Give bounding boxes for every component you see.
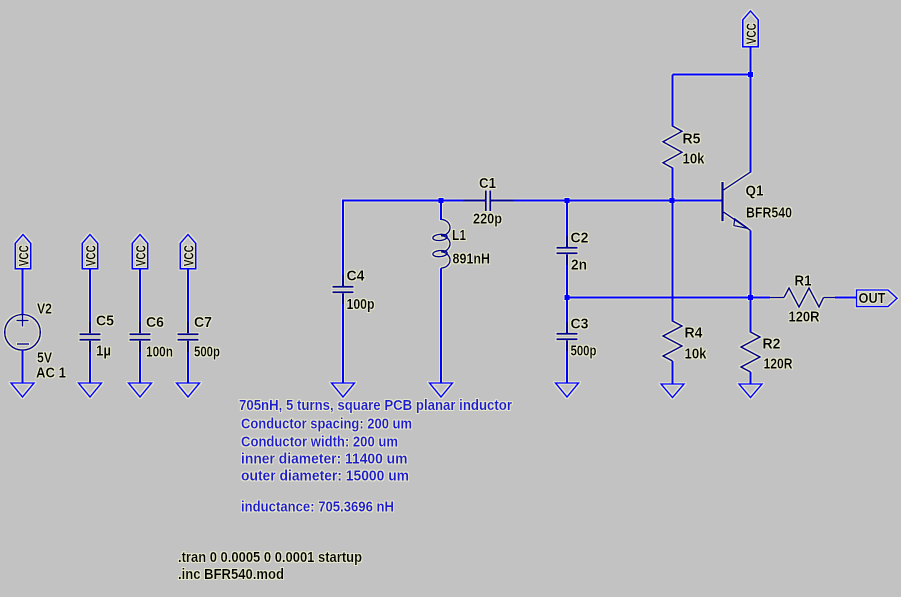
wire: [342, 293, 344, 383]
wire: [342, 200, 344, 287]
node junction: [748, 72, 753, 77]
capacitor lead stubs (navy over blue): [90, 201, 567, 353]
svg-text:C4: C4: [347, 268, 366, 285]
svg-text:VCC: VCC: [744, 23, 759, 44]
resistor R1: [770, 288, 836, 307]
node junction: [439, 198, 444, 203]
svg-text:C5: C5: [96, 313, 114, 330]
wire: [22, 269, 24, 315]
svg-text:AC 1: AC 1: [36, 365, 66, 382]
svg-text:C2: C2: [571, 230, 589, 247]
svg-text:R5: R5: [683, 131, 701, 148]
ground: [11, 383, 34, 397]
svg-text:C6: C6: [146, 314, 164, 331]
wire: [672, 361, 674, 384]
svg-text:VCC: VCC: [181, 245, 196, 266]
wire: [187, 269, 189, 333]
wire: [343, 200, 486, 202]
svg-text:Conductor width: 200 um: Conductor width: 200 um: [241, 434, 398, 451]
wire: [566, 201, 568, 248]
svg-text:R2: R2: [763, 336, 781, 353]
svg-text:.inc BFR540.mod: .inc BFR540.mod: [178, 566, 284, 583]
wire: [750, 47, 752, 75]
ground: [79, 383, 102, 397]
capacitor C6: [130, 334, 151, 340]
svg-text:C7: C7: [194, 314, 212, 331]
vcc flag C6: [132, 235, 147, 269]
svg-text:10k: 10k: [683, 151, 706, 168]
resistor R2: [741, 332, 760, 372]
wire: [440, 201, 442, 221]
svg-text:R4: R4: [685, 325, 704, 342]
svg-text:BFR540: BFR540: [746, 205, 792, 222]
ground: [129, 383, 152, 397]
vcc flag C5: [82, 235, 97, 269]
comment text block: [239, 397, 512, 516]
svg-text:OUT: OUT: [859, 290, 886, 307]
vcc flag C7: [180, 235, 195, 269]
wire: [673, 74, 751, 76]
wire: [139, 269, 141, 333]
voltage source V2: [5, 315, 41, 351]
svg-text:VCC: VCC: [83, 245, 98, 266]
capacitor C4: [333, 287, 354, 293]
wire: [440, 268, 442, 383]
node junction: [670, 198, 675, 203]
svg-text:VCC: VCC: [133, 245, 148, 266]
wire: [139, 341, 141, 383]
wire: [89, 341, 91, 383]
wire: [672, 168, 674, 322]
svg-text:C3: C3: [571, 316, 589, 333]
svg-text:Q1: Q1: [746, 183, 764, 200]
svg-text:Conductor spacing: 200 um: Conductor spacing: 200 um: [241, 416, 412, 433]
svg-text:500p: 500p: [571, 343, 597, 360]
svg-text:.tran 0 0.0005 0 0.0001 startu: .tran 0 0.0005 0 0.0001 startup: [178, 549, 362, 566]
wire: [566, 298, 568, 334]
svg-text:L1: L1: [452, 227, 466, 244]
wire: [835, 297, 857, 299]
svg-text:outer diameter: 15000 um: outer diameter: 15000 um: [241, 467, 409, 484]
wire: [672, 75, 674, 127]
inductor L1: [433, 220, 450, 269]
svg-text:120R: 120R: [789, 309, 820, 326]
resistor R5: [663, 126, 682, 168]
capacitor C7: [178, 334, 199, 340]
wire (collector): [750, 75, 752, 173]
svg-text:220p: 220p: [473, 211, 502, 228]
capacitor C3: [557, 334, 578, 340]
svg-text:VCC: VCC: [16, 245, 31, 266]
svg-text:891nH: 891nH: [453, 251, 491, 268]
svg-text:500p: 500p: [194, 344, 220, 361]
ground: [430, 383, 453, 397]
svg-text:705nH, 5 turns, square PCB pla: 705nH, 5 turns, square PCB planar induct…: [239, 397, 512, 414]
svg-text:inner diameter: 11400 um: inner diameter: 11400 um: [241, 451, 408, 468]
svg-text:2n: 2n: [571, 257, 587, 274]
wire: [187, 341, 189, 383]
svg-text:10k: 10k: [685, 346, 708, 363]
ground: [556, 383, 579, 397]
svg-text:inductance: 705.3696 nH: inductance: 705.3696 nH: [241, 499, 394, 516]
ground: [177, 383, 200, 397]
node junction: [565, 295, 570, 300]
wire: [491, 200, 722, 202]
wire: [566, 340, 568, 383]
capacitor C2: [557, 248, 578, 254]
capacitor C5: [80, 334, 101, 340]
ground: [739, 384, 762, 398]
svg-text:120R: 120R: [764, 356, 793, 373]
node junction: [565, 198, 570, 203]
ground: [332, 383, 355, 397]
wire: [567, 297, 770, 299]
wire: [750, 298, 752, 333]
transistor Q1: [723, 172, 751, 231]
svg-text:C1: C1: [479, 175, 496, 192]
wire: [22, 350, 24, 383]
wire: [750, 372, 752, 384]
output flag OUT: [857, 290, 898, 307]
resistor R4: [663, 321, 682, 361]
svg-text:1µ: 1µ: [96, 343, 111, 360]
svg-text:V2: V2: [37, 301, 52, 318]
node junction: [748, 295, 753, 300]
vcc flag top: [743, 11, 758, 47]
spice directive text: [178, 549, 362, 583]
wire: [566, 254, 568, 297]
wire (emitter): [750, 231, 752, 298]
svg-text:R1: R1: [795, 273, 812, 290]
vcc flag V2: [15, 235, 30, 269]
wire: [89, 269, 91, 333]
svg-text:100n: 100n: [146, 344, 173, 361]
ground: [661, 384, 684, 398]
svg-text:100p: 100p: [347, 296, 375, 313]
